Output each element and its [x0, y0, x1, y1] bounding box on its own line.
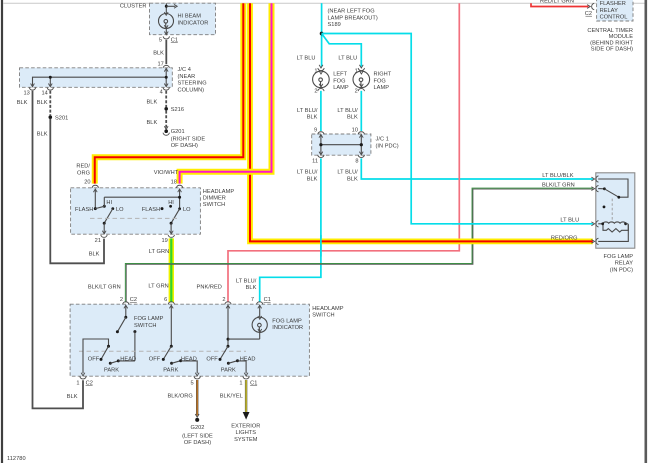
svg-text:18: 18	[171, 179, 177, 185]
svg-text:FOG: FOG	[374, 78, 386, 84]
svg-text:SIDE OF DASH): SIDE OF DASH)	[591, 47, 633, 53]
svg-text:BLK: BLK	[347, 115, 358, 121]
svg-text:HI: HI	[106, 200, 112, 206]
wire lamp to cluster edge	[164, 29, 168, 35]
dimmer pin 20	[84, 179, 98, 208]
svg-text:HI BEAM: HI BEAM	[178, 14, 202, 20]
headlamp switch group 2 feed from pin 6	[170, 306, 173, 348]
J/C1 pin 11	[312, 155, 324, 165]
svg-text:PARK: PARK	[104, 368, 119, 374]
svg-text:BLK: BLK	[246, 285, 257, 291]
right fog lamp	[353, 71, 392, 91]
svg-text:RED/LT GRN: RED/LT GRN	[540, 0, 574, 4]
svg-text:HEADLAMP: HEADLAMP	[312, 306, 344, 312]
svg-text:PARK: PARK	[221, 368, 236, 374]
label LT BLU right lamp	[338, 55, 357, 61]
wire crossing patch LT BLU over PNK/RED and BLK/LT GRN	[452, 223, 480, 225]
wire LT BLU/BLK left lamp to J/C1 pin 9	[297, 91, 321, 131]
relay coil	[598, 222, 628, 242]
wire from top into cluster	[165, 3, 167, 13]
fog lamp relay box	[596, 173, 635, 273]
svg-text:MODULE: MODULE	[609, 34, 634, 40]
wire BLK cluster to J/C4	[153, 40, 166, 64]
wire LT GRN dimmer pin 19 to headlamp switch pin 6	[148, 238, 171, 302]
ground G201	[163, 126, 205, 149]
wire RED/ORG from top to dimmer pin 20	[76, 3, 243, 183]
svg-text:BLK: BLK	[347, 176, 358, 182]
central timer module label	[587, 28, 633, 53]
J/C1 pin 10	[352, 127, 365, 134]
wire BLK pin 1 C2 label	[67, 394, 78, 400]
svg-text:LEFT: LEFT	[333, 72, 347, 78]
svg-text:19: 19	[161, 238, 167, 244]
svg-text:LT GRN: LT GRN	[149, 249, 169, 255]
splice S201	[49, 115, 69, 121]
svg-text:BLK: BLK	[37, 132, 48, 138]
J/C1 internal bus	[319, 135, 363, 155]
svg-text:BLK: BLK	[147, 100, 158, 106]
group 3 OFF contact and arm	[206, 346, 228, 362]
nodes on J/C1 bus	[319, 143, 363, 146]
svg-text:112780: 112780	[7, 456, 26, 462]
svg-text:PARK: PARK	[163, 368, 178, 374]
wire LT BLU/BLK right lamp to J/C1 pin 10	[337, 91, 361, 131]
wire BLK/ORG pin 5 to G202	[167, 380, 197, 416]
svg-text:FOG LAMP: FOG LAMP	[272, 318, 302, 324]
svg-text:CENTRAL TIMER: CENTRAL TIMER	[587, 28, 633, 34]
svg-text:(BEHIND RIGHT: (BEHIND RIGHT	[590, 40, 633, 46]
svg-text:BLK/LT GRN: BLK/LT GRN	[88, 285, 121, 291]
wire LT BLU S189 branch to right fog lamp	[322, 34, 362, 67]
fog lamp switch	[116, 306, 164, 361]
svg-text:LO: LO	[116, 207, 124, 213]
splice S216	[164, 107, 184, 113]
wire crossing patch LT BLU/BLK over RED/ORG and PNK/RED	[320, 235, 322, 257]
headlamp switch pin 1 C1	[239, 376, 257, 386]
svg-text:J/C 1: J/C 1	[376, 137, 389, 143]
J/C4 pin 4	[160, 88, 170, 96]
svg-text:10: 10	[352, 127, 358, 133]
node splice in cluster	[165, 5, 168, 8]
svg-text:BLK: BLK	[37, 100, 48, 106]
group 3 PARK contact	[221, 359, 239, 373]
svg-text:LT BLU: LT BLU	[297, 55, 316, 61]
dimmer internal bus HI to pin 18 leg	[104, 196, 181, 199]
junction connector J/C 1 box	[312, 134, 399, 155]
svg-text:2: 2	[222, 297, 225, 303]
splice S189	[320, 9, 378, 36]
svg-text:BLK: BLK	[17, 100, 28, 106]
svg-text:VIO/WHT: VIO/WHT	[154, 170, 179, 176]
group 1 HEAD contact	[118, 356, 136, 362]
svg-text:(RIGHT SIDE: (RIGHT SIDE	[171, 136, 206, 142]
svg-text:(LEFT SIDE: (LEFT SIDE	[182, 433, 213, 439]
svg-text:2: 2	[355, 89, 358, 95]
svg-text:(NEAR: (NEAR	[178, 74, 196, 80]
svg-text:OFF: OFF	[206, 356, 218, 362]
svg-text:6: 6	[164, 297, 167, 303]
svg-text:11: 11	[312, 159, 318, 165]
J/C4 pin 13	[23, 88, 35, 97]
wire to fog lamp indicator	[228, 338, 260, 340]
svg-text:J/C 4: J/C 4	[178, 67, 191, 73]
svg-text:FLASH: FLASH	[142, 207, 160, 213]
svg-text:S216: S216	[171, 107, 184, 113]
svg-text:HI: HI	[168, 200, 174, 206]
svg-text:LIGHTS: LIGHTS	[235, 430, 256, 436]
relay pin LT BLU	[560, 217, 598, 227]
wire BLK pin13 down to headlamp switch pin 1 C2	[17, 91, 83, 409]
headlamp switch group 1 feed from pin 1 C2	[81, 339, 110, 376]
svg-text:RELAY: RELAY	[615, 261, 633, 267]
svg-text:COLUMN): COLUMN)	[178, 87, 205, 93]
svg-text:BLK: BLK	[67, 394, 78, 400]
group 2 HEAD contact to pin 5	[181, 356, 199, 376]
svg-text:ORG: ORG	[77, 170, 90, 176]
svg-text:LT GRN: LT GRN	[148, 284, 168, 290]
group 2 OFF contact and arm	[149, 346, 172, 362]
wire LT BLU S189 branch to fog lamp relay	[322, 34, 593, 224]
headlamp switch pin 2 C2	[120, 297, 137, 308]
relay switch contact	[598, 179, 628, 223]
right fog lamp pin 1	[355, 65, 365, 75]
svg-text:7: 7	[251, 297, 254, 303]
svg-text:INDICATOR: INDICATOR	[178, 20, 209, 26]
wire arrow to right inside cluster	[166, 4, 177, 8]
dimmer left switch FLASH contact	[75, 207, 97, 213]
wire BLK/LT GRN headlamp switch pin 2 C2 to fog lamp relay	[88, 188, 593, 302]
wire BLK dashed S216 to G201	[147, 111, 167, 128]
svg-text:FLASH: FLASH	[75, 207, 93, 213]
svg-text:1: 1	[239, 381, 242, 387]
svg-text:RIGHT: RIGHT	[374, 72, 392, 78]
svg-text:LT BLU: LT BLU	[338, 55, 357, 61]
svg-text:EXTERIOR: EXTERIOR	[231, 424, 260, 430]
svg-text:4: 4	[160, 89, 163, 95]
svg-text:20: 20	[84, 179, 90, 185]
wire BLK S201 to dimmer pin 21	[37, 119, 104, 263]
hi beam indicator lamp	[159, 12, 209, 28]
svg-text:HEAD: HEAD	[240, 356, 256, 362]
svg-text:BLK: BLK	[89, 252, 100, 258]
headlamp switch box	[70, 304, 344, 376]
headlamp switch group 3 feed from pin 2	[227, 306, 230, 348]
node on J/C4 bus	[49, 76, 168, 79]
svg-text:INDICATOR: INDICATOR	[272, 325, 303, 331]
svg-text:2: 2	[314, 89, 317, 95]
group 3 HEAD contact to pin 1 C1	[238, 356, 256, 376]
svg-text:BLK/LT GRN: BLK/LT GRN	[542, 183, 575, 189]
wire RED to central timer module	[531, 0, 594, 17]
svg-text:5: 5	[159, 38, 162, 44]
svg-text:OFF: OFF	[88, 356, 100, 362]
svg-text:SWITCH: SWITCH	[203, 202, 226, 208]
relay pin RED/ORG	[551, 235, 599, 244]
svg-text:HEAD: HEAD	[181, 356, 197, 362]
svg-text:5: 5	[191, 381, 194, 387]
svg-text:G202: G202	[191, 425, 205, 431]
wire RED/ORG from top to fog lamp relay	[250, 3, 593, 241]
svg-text:BLK/ORG: BLK/ORG	[167, 394, 192, 400]
svg-text:(NEAR LEFT FOG: (NEAR LEFT FOG	[328, 9, 375, 15]
dimmer pin 21	[95, 235, 108, 244]
headlamp switch pin 6	[164, 297, 174, 308]
dimmer left switch HI contact and arm	[95, 197, 112, 208]
svg-text:BLK: BLK	[307, 115, 318, 121]
J/C4 pin 14	[41, 88, 53, 97]
wire PNK/RED from top to headlamp switch pin 2	[197, 3, 460, 302]
instrument cluster box	[120, 3, 216, 35]
svg-text:17: 17	[157, 61, 163, 67]
dimmer pin 18	[171, 179, 183, 208]
svg-text:14: 14	[41, 91, 47, 97]
svg-text:2: 2	[120, 297, 123, 303]
switch mechanical link dashed	[79, 350, 246, 352]
svg-text:LT BLU/: LT BLU/	[337, 170, 358, 176]
dimmer mechanical link dashed	[90, 217, 177, 219]
dimmer right switch FLASH contact	[142, 207, 164, 213]
headlamp switch pin 1 C2	[76, 376, 92, 386]
svg-text:FOG: FOG	[333, 78, 345, 84]
svg-text:SWITCH: SWITCH	[312, 313, 335, 319]
connector pin 17 of J/C 4	[157, 61, 169, 68]
wire BLK dashed pin4 to S216	[147, 91, 167, 107]
svg-text:21: 21	[95, 238, 101, 244]
connector C1 pin 5	[159, 36, 178, 43]
headlamp switch pin 5	[191, 376, 201, 386]
svg-text:LAMP BREAKOUT): LAMP BREAKOUT)	[328, 15, 378, 21]
headlamp dimmer switch box	[71, 188, 235, 234]
svg-text:STEERING: STEERING	[178, 81, 207, 87]
svg-text:FLASHER: FLASHER	[600, 1, 626, 7]
junction connector J/C 4 box	[20, 67, 207, 93]
svg-text:LAMP: LAMP	[374, 85, 390, 91]
svg-text:LT BLU/: LT BLU/	[337, 108, 358, 114]
right fog lamp pin 2	[355, 89, 365, 95]
J/C 4 internal bus	[31, 68, 169, 86]
svg-text:LT BLU/BLK: LT BLU/BLK	[542, 173, 573, 179]
svg-text:LT BLU/: LT BLU/	[236, 279, 257, 285]
svg-text:HEAD: HEAD	[120, 356, 136, 362]
svg-text:LT BLU/: LT BLU/	[297, 108, 318, 114]
svg-text:SYSTEM: SYSTEM	[234, 437, 258, 443]
relay pin BLK/LT GRN	[542, 183, 598, 192]
svg-text:SWITCH: SWITCH	[134, 323, 157, 329]
J/C1 pin 9	[314, 127, 324, 134]
dimmer left switch LO contact and arm	[102, 207, 124, 234]
J/C1 pin 8	[355, 155, 364, 165]
svg-text:OFF: OFF	[149, 356, 161, 362]
svg-text:9: 9	[314, 127, 317, 133]
svg-text:FOG LAMP: FOG LAMP	[134, 316, 164, 322]
fog lamp indicator	[252, 306, 303, 340]
svg-text:HEADLAMP: HEADLAMP	[203, 189, 235, 195]
svg-text:1: 1	[76, 381, 79, 387]
central timer module box	[597, 0, 633, 21]
svg-text:(IN PDC): (IN PDC)	[376, 143, 399, 149]
headlamp switch pin 2 (PNK/RED)	[222, 297, 231, 308]
svg-text:BLK: BLK	[307, 176, 318, 182]
svg-text:S201: S201	[55, 115, 68, 121]
wire BLK/YEL pin 1 C1 to exterior lights	[220, 380, 246, 412]
svg-text:CLUSTER: CLUSTER	[120, 3, 147, 9]
dimmer right switch LO contact and arm	[169, 207, 191, 234]
svg-text:LT BLU/: LT BLU/	[297, 170, 318, 176]
svg-text:RELAY: RELAY	[600, 8, 618, 14]
dimmer right switch HI contact	[168, 200, 174, 208]
svg-text:RED/: RED/	[76, 164, 90, 170]
svg-text:RED/ORG: RED/ORG	[551, 235, 578, 241]
svg-text:G201: G201	[171, 129, 185, 135]
svg-text:FOG LAMP: FOG LAMP	[604, 254, 634, 260]
headlamp switch pin 7 C1	[251, 297, 271, 308]
left fog lamp pin 2	[314, 89, 324, 95]
svg-text:LAMP: LAMP	[333, 85, 349, 91]
svg-text:DIMMER: DIMMER	[203, 196, 226, 202]
svg-text:CONTROL: CONTROL	[600, 15, 628, 21]
svg-text:OF DASH): OF DASH)	[184, 440, 211, 446]
group 1 PARK contact	[104, 359, 120, 373]
wire LT BLU from top to splice S189	[321, 3, 323, 66]
left fog lamp pin 1	[314, 65, 324, 75]
relay pin LT BLU/BLK	[542, 173, 598, 182]
svg-text:PNK/RED: PNK/RED	[197, 285, 222, 291]
svg-text:13: 13	[23, 91, 29, 97]
svg-text:BLK/YEL: BLK/YEL	[220, 394, 243, 400]
dimmer pin 19	[161, 235, 174, 244]
svg-text:LO: LO	[183, 207, 191, 213]
group 1 OFF contact and arm	[88, 346, 109, 362]
svg-text:S189: S189	[328, 22, 341, 28]
wire BLK dashed pin14 to S201	[37, 91, 50, 116]
ground G202	[182, 414, 213, 446]
svg-text:OF DASH): OF DASH)	[171, 143, 198, 149]
arrow to exterior lights system	[231, 412, 260, 443]
wire LT BLU/BLK J/C1 pin 8 to fog lamp relay	[337, 158, 592, 182]
label LT BLU left lamp	[297, 55, 316, 61]
svg-text:BLK: BLK	[147, 120, 158, 126]
wire LT BLU/BLK J/C1 pin 11 to headlamp switch pin 7	[236, 158, 321, 302]
svg-text:BLK: BLK	[153, 51, 164, 57]
svg-text:(IN PDC): (IN PDC)	[610, 267, 633, 273]
wire VIO/WHT from top to dimmer pin 18	[154, 3, 272, 183]
svg-text:8: 8	[355, 159, 358, 165]
left fog lamp	[313, 71, 349, 91]
svg-text:LT BLU: LT BLU	[560, 217, 579, 223]
group 2 PARK contact	[163, 359, 182, 373]
